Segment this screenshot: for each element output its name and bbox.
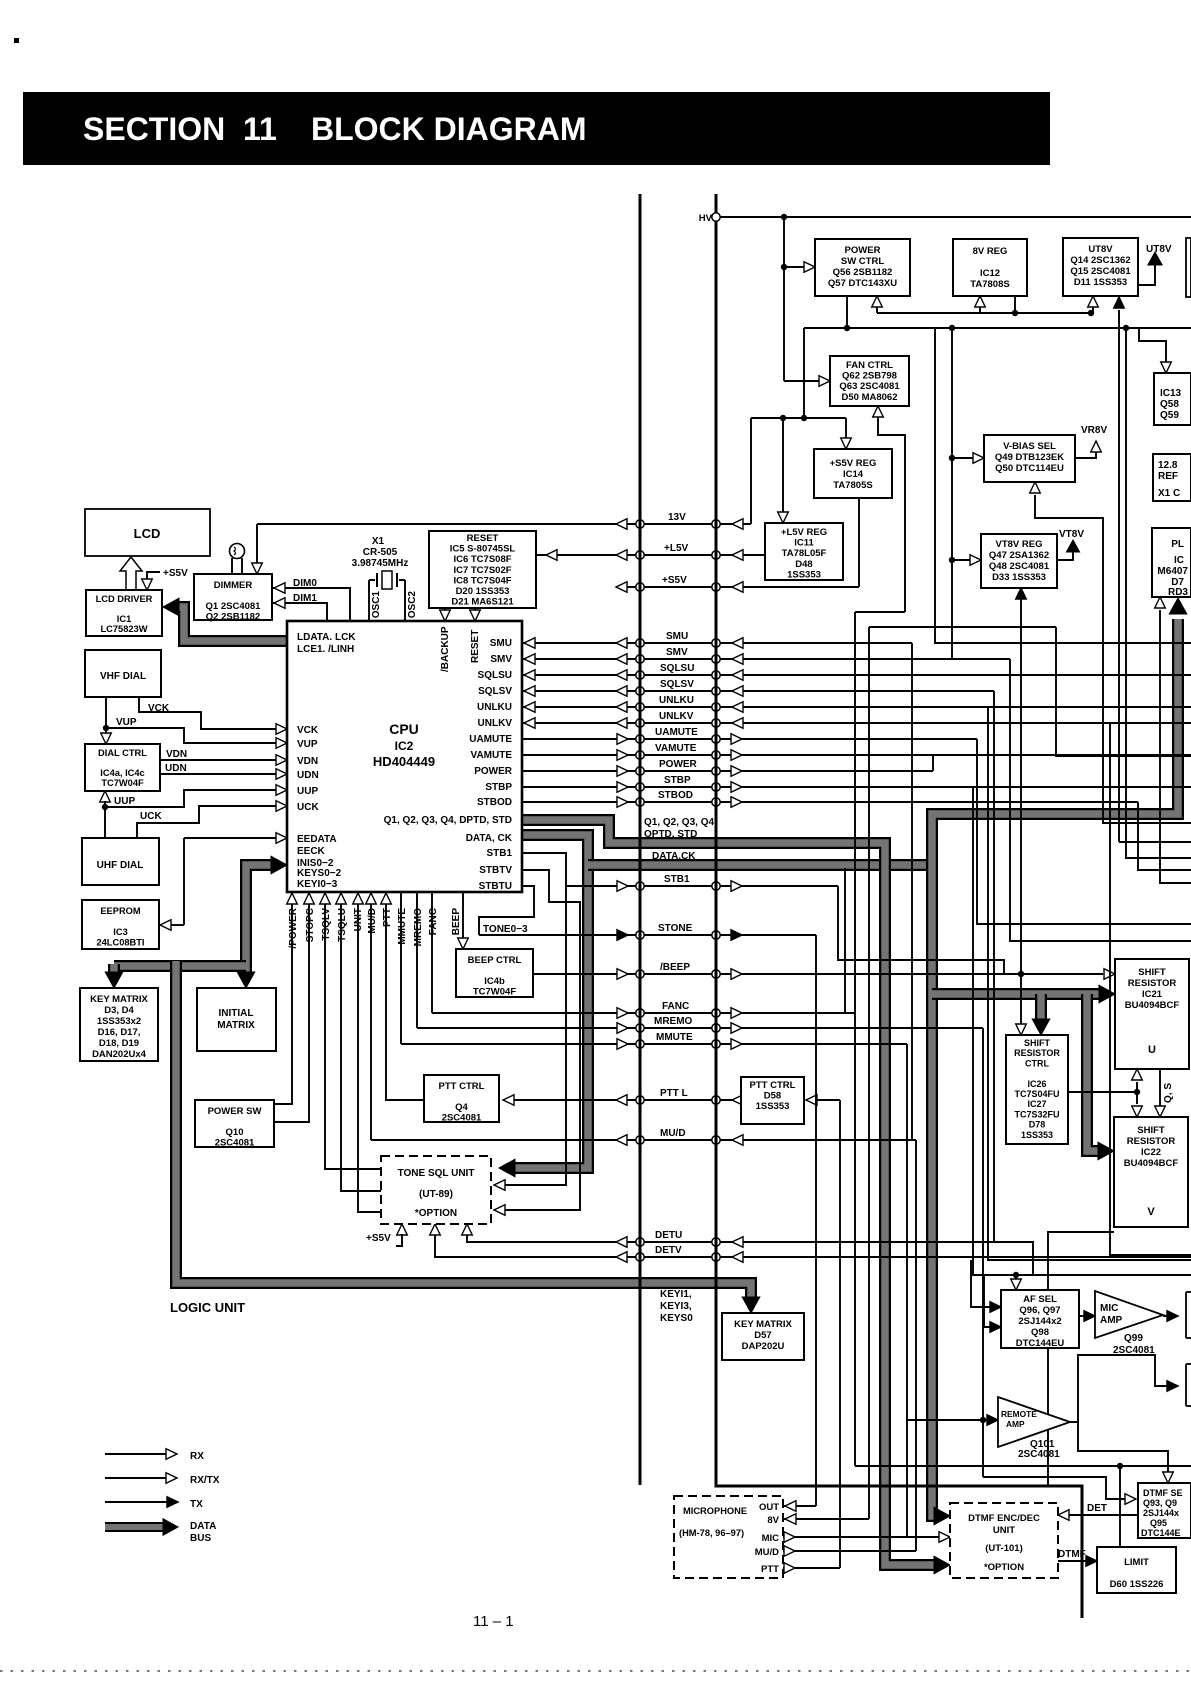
box DIMMER Q1 Q2 (194, 574, 272, 620)
wire TONE SQL UNIT pin to STB1 riser (505, 886, 566, 1185)
svg-text:SHIFT: SHIFT (1024, 1038, 1051, 1048)
svg-text:MMUTE: MMUTE (397, 908, 408, 945)
svg-text:RESET: RESET (470, 630, 481, 663)
wire DTMF SEL left input (983, 1477, 1127, 1499)
svg-text:Q58: Q58 (1160, 399, 1179, 410)
svg-text:TONE0−3: TONE0−3 (483, 924, 528, 935)
wire 8V drop to microphone (868, 627, 870, 1519)
svg-text:IC14: IC14 (843, 469, 864, 480)
svg-text:DIM0: DIM0 (293, 578, 317, 589)
svg-text:IC22: IC22 (1141, 1147, 1161, 1158)
legend RX (105, 1453, 168, 1455)
box RESET IC5-IC8 (429, 531, 536, 608)
svg-text:UHF DIAL: UHF DIAL (97, 860, 144, 871)
right edge box 2 (1185, 1364, 1187, 1406)
wire VHF DIAL to DIAL CTRL (105, 696, 107, 733)
svg-text:X1 C: X1 C (1158, 488, 1180, 499)
svg-text:SMV: SMV (490, 654, 512, 665)
wire STB1 from CPU pin (522, 853, 566, 886)
svg-text:MREMO: MREMO (654, 1016, 693, 1027)
box +L5V REG IC11 D48 (765, 523, 843, 580)
svg-text:UNLKV: UNLKV (478, 718, 513, 729)
svg-text:AMP: AMP (1100, 1315, 1123, 1326)
svg-text:IC27: IC27 (1027, 1099, 1046, 1109)
svg-text:HV: HV (699, 213, 713, 224)
wire microphone OUT (783, 1505, 816, 1507)
svg-text:SMU: SMU (666, 631, 688, 642)
svg-text:RESISTOR: RESISTOR (1128, 978, 1177, 989)
wire /POWER to POWER SW (274, 903, 292, 1104)
svg-text:TSQLV: TSQLV (321, 908, 332, 941)
svg-text:POWER SW: POWER SW (208, 1106, 262, 1117)
wire 13V riser and regulator feeds y=418 (751, 417, 846, 419)
wire x=855 drop to y=1466 (854, 612, 856, 1466)
svg-text:EECK: EECK (297, 846, 326, 857)
data bus: LCD DRIVER to CPU LDATA/LCK (174, 607, 287, 641)
svg-text:D50 MA8062: D50 MA8062 (842, 392, 898, 403)
wire DET line DTMF SEL to DTMF ENC/DEC (1068, 1514, 1138, 1516)
data bus: CPU DATA,CK down to TONE SQL UNIT (509, 835, 588, 1168)
svg-text:SMV: SMV (666, 647, 688, 658)
svg-text:TC7W04F: TC7W04F (101, 778, 144, 788)
box DTMF SEL Q93 Q94 Q95 (1138, 1483, 1191, 1538)
box LIMIT D60 (1097, 1547, 1176, 1593)
svg-text:IC5 S-80745SL: IC5 S-80745SL (450, 544, 516, 555)
box TONE SQL UNIT UT-89 dashed (381, 1156, 491, 1224)
wire PLL bottom thin feed to right edge y=896 (1160, 610, 1191, 883)
box EEPROM IC3 (82, 900, 159, 949)
svg-text:BEEP CTRL: BEEP CTRL (468, 955, 522, 966)
wire OSC2 (404, 580, 406, 621)
svg-text:IC8 TC7S04F: IC8 TC7S04F (453, 575, 511, 586)
svg-text:2SC4081: 2SC4081 (442, 1113, 482, 1124)
svg-text:TC7S32FU: TC7S32FU (1014, 1109, 1059, 1119)
svg-text:UT8V: UT8V (1146, 244, 1172, 255)
wire MMUTE (401, 1043, 907, 1045)
svg-text:UT8V: UT8V (1088, 244, 1113, 255)
wire 13V to DIMMER (256, 524, 258, 565)
data bus: CPU Q1-Q4,OPTD,STD to DTMF ENC/DEC (522, 820, 939, 1565)
svg-text:OSC1: OSC1 (371, 591, 382, 619)
svg-text:LIMIT: LIMIT (1124, 1557, 1149, 1568)
svg-text:BLOCK DIAGRAM: BLOCK DIAGRAM (311, 111, 587, 147)
svg-text:/POWER: /POWER (288, 907, 299, 948)
svg-text:DATA: DATA (190, 1521, 216, 1532)
wire 8V feed x=935 to right edge y=643 (935, 328, 1191, 643)
wire UCK (137, 806, 278, 838)
wire STOPC to POWER SW (274, 903, 309, 1122)
svg-text:RESISTOR: RESISTOR (1014, 1048, 1060, 1058)
svg-text:DIMMER: DIMMER (214, 580, 253, 591)
svg-text:24LC08BTI: 24LC08BTI (96, 938, 144, 948)
svg-text:Q1, Q2, Q3, Q4, DPTD, STD: Q1, Q2, Q3, Q4, DPTD, STD (384, 815, 512, 826)
box VHF DIAL (85, 650, 161, 697)
svg-text:STBP: STBP (485, 782, 512, 793)
svg-text:X1: X1 (372, 536, 385, 547)
svg-text:POWER: POWER (474, 766, 513, 777)
box PLL IC M64015 (1152, 528, 1191, 597)
svg-text:11: 11 (243, 111, 277, 147)
svg-text:AF SEL: AF SEL (1023, 1294, 1057, 1305)
svg-text:TC7S04FU: TC7S04FU (1014, 1089, 1059, 1099)
svg-text:UUP: UUP (114, 796, 135, 807)
box POWER SW CTRL Q56 Q57 (815, 239, 910, 296)
svg-text:VCK: VCK (148, 703, 170, 714)
dimmer lamp symbol (230, 544, 245, 559)
wire DETV (435, 1234, 1191, 1257)
wire MIC AMP output to right edge box (1163, 1315, 1169, 1317)
svg-text:(HM-78, 96–97): (HM-78, 96–97) (679, 1528, 744, 1538)
svg-text:11 – 1: 11 – 1 (473, 1613, 514, 1630)
wire AF SEL input 2 (984, 1275, 991, 1327)
box INITIAL MATRIX (197, 988, 276, 1051)
wire 8V to V-BIAS/VT8V vertical x=952 (951, 328, 953, 660)
wire STB1 (566, 885, 838, 887)
data bus branch to SHIFT RESISTOR IC22 (1087, 994, 1102, 1151)
wire AF SEL top feed (1015, 1275, 1017, 1280)
svg-text:UNLKV: UNLKV (659, 711, 694, 722)
svg-text:UNLKU: UNLKU (477, 702, 512, 713)
svg-text:RX/TX: RX/TX (190, 1475, 220, 1486)
legend TX (105, 1501, 170, 1503)
wire SMV drop to right edge y=941 (1010, 659, 1191, 941)
header bar: SECTION 11 BLOCK DIAGRAM (23, 92, 1050, 165)
svg-text:MIC: MIC (1100, 1303, 1118, 1314)
svg-text:MIC: MIC (762, 1533, 780, 1544)
svg-text:SQLSV: SQLSV (660, 679, 694, 690)
svg-text:Q63 2SC4081: Q63 2SC4081 (839, 381, 900, 392)
svg-text:AMP: AMP (1006, 1419, 1025, 1429)
LCD to LCD DRIVER big arrow (120, 557, 142, 590)
svg-text:D20 1SS353: D20 1SS353 (456, 586, 510, 597)
svg-text:STONE: STONE (658, 923, 693, 934)
svg-text:STBTU: STBTU (479, 881, 512, 892)
svg-text:VUP: VUP (116, 717, 137, 728)
wire VCK (139, 696, 278, 729)
wire DIM0 (272, 588, 350, 621)
wire +L5V (536, 554, 765, 556)
wire DTMF ENC/DEC to LIMIT (1058, 1560, 1086, 1562)
svg-text:(UT-101): (UT-101) (985, 1543, 1022, 1554)
wire microphone 8V (783, 1518, 869, 1520)
wire microphone MIC to DTMF ENC/DEC (783, 1536, 939, 1538)
svg-text:1SS353: 1SS353 (1021, 1130, 1053, 1140)
wire STBTU to TONE0-3 line (479, 886, 534, 935)
svg-text:IC4a, IC4c: IC4a, IC4c (100, 768, 144, 778)
svg-text:VT8V REG: VT8V REG (996, 539, 1043, 550)
svg-text:DAP202U: DAP202U (742, 1341, 785, 1352)
svg-text:KEYI1,: KEYI1, (660, 1289, 692, 1300)
wire VT8V REG bottom feed / shift ctrl feed x=1021 (1020, 599, 1022, 1024)
svg-text:12.8: 12.8 (1158, 460, 1178, 471)
svg-text:VDN: VDN (166, 749, 187, 760)
wire microphone MU/D (783, 1550, 916, 1552)
wire HV feed to POWER SW CTRL and FAN CTRL (783, 217, 785, 381)
svg-text:D18, D19: D18, D19 (99, 1038, 139, 1049)
wire +S5V (618, 586, 859, 588)
svg-text:13V: 13V (668, 512, 686, 523)
svg-text:DETU: DETU (655, 1230, 682, 1241)
svg-text:RD3: RD3 (1168, 587, 1188, 598)
svg-text:+L5V REG: +L5V REG (781, 527, 827, 538)
svg-text:KEYI0−3: KEYI0−3 (297, 879, 338, 890)
wire AF SEL input 1 (971, 1260, 991, 1307)
amp triangle MIC AMP Q99 (1095, 1291, 1163, 1338)
svg-text:HD404449: HD404449 (373, 754, 435, 769)
svg-text:RX: RX (190, 1451, 204, 1462)
wire MMUTE drop to MIC line (906, 1044, 908, 1537)
svg-text:+S5V: +S5V (662, 575, 687, 586)
svg-text:*OPTION: *OPTION (415, 1208, 457, 1219)
data bus branch to SHIFT RESISTOR CTRL (1035, 994, 1047, 1023)
svg-text:Q48 2SC4081: Q48 2SC4081 (989, 561, 1050, 572)
svg-text:MICROPHONE: MICROPHONE (683, 1506, 747, 1516)
wire UNLKV branch down to y=1255 (1110, 723, 1191, 1255)
svg-text:Q93, Q9: Q93, Q9 (1143, 1498, 1177, 1508)
svg-text:UUP: UUP (297, 786, 318, 797)
svg-text:3.98745MHz: 3.98745MHz (352, 558, 409, 569)
svg-text:IC7 TC7S02F: IC7 TC7S02F (453, 565, 511, 576)
svg-text:Q1, Q2, Q3, Q4,: Q1, Q2, Q3, Q4, (644, 817, 717, 828)
svg-text:REMOTE: REMOTE (1001, 1409, 1037, 1419)
wire VUP (106, 728, 278, 743)
svg-text:VCK: VCK (297, 725, 319, 736)
svg-text:D78: D78 (1029, 1120, 1046, 1130)
box VT8V REG Q47 Q48 D33 (981, 534, 1057, 588)
svg-text:OUT: OUT (759, 1502, 779, 1513)
wire TSQLV to TONE SQL UNIT (325, 903, 381, 1169)
svg-text:1SS353: 1SS353 (756, 1101, 790, 1112)
svg-text:(UT-89): (UT-89) (419, 1189, 453, 1200)
svg-text:KEY MATRIX: KEY MATRIX (734, 1319, 792, 1330)
svg-text:Q95: Q95 (1150, 1518, 1167, 1528)
wire PTT L (510, 1099, 741, 1101)
svg-text:STBOD: STBOD (477, 797, 512, 808)
svg-text:SQLSV: SQLSV (478, 686, 512, 697)
amp triangle REMOTE AMP Q101 (998, 1397, 1070, 1447)
box 12.8MHz REF X1 (1153, 454, 1191, 501)
svg-text:Q10: Q10 (226, 1127, 244, 1138)
svg-text:MATRIX: MATRIX (217, 1020, 255, 1031)
box PTT CTRL D58 1SS353 (741, 1077, 804, 1124)
wire VDN (160, 759, 278, 761)
svg-text:IC1: IC1 (117, 614, 131, 624)
right edge box 1 (1185, 1292, 1187, 1338)
wire DIM1 (272, 603, 327, 621)
svg-text:PTT L: PTT L (660, 1088, 688, 1099)
svg-text:DETV: DETV (655, 1245, 682, 1256)
svg-text:D3, D4: D3, D4 (104, 1005, 134, 1016)
svg-text:TC7W04F: TC7W04F (473, 987, 516, 998)
svg-text:SW CTRL: SW CTRL (841, 256, 884, 267)
svg-text:Q98: Q98 (1031, 1327, 1049, 1338)
svg-text:TA78L05F: TA78L05F (782, 548, 827, 559)
box LCD (85, 509, 210, 556)
wire VT8V REG output VT8V (1057, 552, 1073, 560)
svg-text:DATA,CK: DATA,CK (652, 851, 696, 862)
wire VAMUTE (522, 754, 1191, 756)
svg-text:8V: 8V (767, 1515, 779, 1526)
svg-text:BU4094BCF: BU4094BCF (1124, 1158, 1179, 1169)
svg-text:+S5V: +S5V (163, 568, 188, 579)
svg-text:TONE SQL UNIT: TONE SQL UNIT (398, 1168, 475, 1179)
svg-text:CTRL: CTRL (1025, 1058, 1049, 1068)
box POWER SW Q10 (195, 1100, 274, 1147)
svg-text:IC13: IC13 (1160, 388, 1182, 399)
svg-text:DIAL CTRL: DIAL CTRL (98, 748, 147, 758)
svg-text:STOPC: STOPC (305, 908, 316, 942)
data bus: CPU KEYS0-2/INIS0-2 to INITIAL MATRIX / KEY MATRIX (246, 865, 277, 976)
wire FANC pin down (431, 893, 433, 1013)
wire UNLKU branch down to y=1260 (988, 707, 1191, 1260)
data bus: PLL to shift registers and DTMF (932, 619, 1178, 1516)
data bus: DATA,CK horizontal branch (588, 859, 932, 871)
wire SQLSV drop to DETU line (993, 691, 995, 1242)
wire from 8V line to IC13 (1139, 328, 1166, 362)
wire y=1466 to LIMIT and right edge (855, 1465, 1191, 1467)
wire STBP (522, 786, 1191, 788)
box SHIFT RESISTOR IC22 BU4094BCF (1114, 1117, 1188, 1227)
svg-text:BUS: BUS (190, 1533, 211, 1544)
svg-text:UDN: UDN (165, 763, 187, 774)
bottom page edge dotted line (0, 1670, 1191, 1672)
svg-text:UAMUTE: UAMUTE (655, 727, 698, 738)
wire SMU (522, 642, 912, 644)
svg-text:2SJ144x2: 2SJ144x2 (1018, 1316, 1061, 1327)
svg-text:VHF DIAL: VHF DIAL (100, 671, 146, 682)
wire PTT riser x=840 to PTT CTRL D58 and microphone PTT (839, 1100, 841, 1568)
svg-text:BEEP: BEEP (451, 908, 462, 936)
wire SMU drop at x=912 (911, 643, 913, 1140)
svg-text:Q15 2SC4081: Q15 2SC4081 (1070, 266, 1131, 277)
svg-text:CPU: CPU (389, 721, 419, 737)
svg-text:D21 MA6S121: D21 MA6S121 (451, 597, 514, 608)
svg-text:VAMUTE: VAMUTE (655, 743, 697, 754)
svg-text:D11 1SS353: D11 1SS353 (1074, 277, 1127, 288)
svg-text:Q50 DTC114EU: Q50 DTC114EU (995, 463, 1064, 474)
wire MREMO pin down (416, 893, 418, 1028)
wire BEEP pin to BEEP CTRL (462, 893, 464, 940)
svg-text:SMU: SMU (490, 638, 512, 649)
svg-text:MU/D: MU/D (755, 1547, 779, 1558)
wire FANC (432, 1012, 855, 1014)
box PTT CTRL Q4 (424, 1075, 499, 1122)
svg-text:/BACKUP: /BACKUP (440, 626, 451, 672)
wire V-BIAS SEL output VR8V (1075, 452, 1096, 458)
svg-text:KEYS0: KEYS0 (660, 1313, 693, 1324)
wire STBTV to TONE SQL UNIT (505, 870, 580, 1210)
box FAN CTRL Q62 Q63 D50 (830, 356, 909, 406)
box SHIFT RESISTOR CTRL IC26 IC27 D78 (1006, 1035, 1068, 1144)
svg-text:LDATA. LCK: LDATA. LCK (297, 632, 356, 643)
wire microphone PTT (783, 1567, 840, 1569)
data bus branch to SHIFT RESISTOR IC21 (932, 988, 1103, 1000)
svg-text:POWER: POWER (659, 759, 698, 770)
svg-text:8V REG: 8V REG (973, 246, 1008, 257)
wire 8V REG output (1014, 296, 1016, 313)
wire MREMO (417, 1027, 983, 1029)
svg-text:MREMO: MREMO (413, 908, 424, 947)
svg-text:D57: D57 (754, 1330, 771, 1341)
box +S5V REG IC14 (814, 449, 892, 498)
svg-text:Q59: Q59 (1160, 410, 1179, 421)
svg-text:TA7805S: TA7805S (833, 480, 872, 491)
box UHF DIAL (82, 838, 159, 885)
wire OSC1 (368, 580, 370, 621)
svg-text:UDN: UDN (297, 770, 319, 781)
wire STONE (479, 934, 816, 936)
svg-text:MU/D: MU/D (367, 908, 378, 934)
wire right-edge line y=842 (1119, 841, 1191, 843)
svg-text:SECTION: SECTION (83, 111, 225, 147)
svg-text:VR8V: VR8V (1081, 425, 1107, 436)
wire REMOTE AMP output to right edge box 2 (1070, 1355, 1169, 1422)
wire SMV (522, 658, 1010, 660)
svg-text:UAMUTE: UAMUTE (469, 734, 512, 745)
HV line (716, 216, 1191, 218)
svg-text:STBOD: STBOD (658, 790, 693, 801)
svg-text:FANC: FANC (662, 1001, 689, 1012)
wire TSQLU to TONE SQL UNIT (341, 903, 381, 1191)
svg-text:1SS353: 1SS353 (787, 569, 821, 580)
svg-text:MU/D: MU/D (660, 1128, 686, 1139)
wire POWER SW CTRL bottom to 8V rail (846, 296, 848, 328)
wire UNLKU (522, 706, 1191, 708)
svg-text:EEDATA: EEDATA (297, 834, 337, 845)
box IC13 Q58 Q59 (1154, 373, 1191, 425)
svg-text:2SJ144x: 2SJ144x (1143, 1508, 1179, 1518)
svg-text:IC26: IC26 (1027, 1079, 1046, 1089)
svg-text:+S5V: +S5V (366, 1233, 391, 1244)
svg-text:DTC144E: DTC144E (1141, 1528, 1181, 1538)
wire FAN CTRL bottom feed chain (878, 417, 905, 612)
svg-text:PTT: PTT (382, 908, 393, 927)
box MICROPHONE HM-78 dashed (674, 1496, 783, 1578)
svg-text:DTMF SE: DTMF SE (1143, 1488, 1183, 1498)
svg-text:D33 1SS353: D33 1SS353 (992, 572, 1046, 583)
svg-text:IC4b: IC4b (484, 976, 505, 987)
svg-text:VUP: VUP (297, 739, 318, 750)
box CPU IC2 HD404449 (287, 621, 522, 892)
svg-text:LOGIC UNIT: LOGIC UNIT (170, 1300, 245, 1315)
wire into VT8V REG (952, 559, 972, 561)
svg-text:OPTD, STD: OPTD, STD (644, 829, 697, 840)
wire MU/D drop to microphone MU/D (915, 1140, 917, 1551)
svg-text:LCE1. /LINH: LCE1. /LINH (297, 644, 354, 655)
wire UT8V bottom filled feed (1118, 310, 1120, 842)
wire MREMO drop to REMOTE AMP and DTMF SEL (982, 1028, 984, 1477)
svg-text:KEYI3,: KEYI3, (660, 1301, 692, 1312)
svg-text:1SS353x2: 1SS353x2 (97, 1016, 141, 1027)
svg-text:POWER: POWER (845, 245, 881, 256)
wire UT8V output arrow right (1138, 264, 1155, 285)
svg-text:STB1: STB1 (486, 848, 512, 859)
wire x=1126 from 8V line to right edge y=865 (1126, 328, 1191, 858)
wire STB1 route via y=960 (838, 886, 1004, 974)
wire UNIT to TONE SQL UNIT (358, 903, 381, 1212)
wires between IC21 and IC22 (1136, 1082, 1138, 1104)
wire UNLKV (522, 722, 1191, 724)
box DIAL CTRL IC4a IC4c (85, 744, 160, 791)
wire PTT pin to PTT CTRL Q4 (386, 903, 423, 1100)
svg-text:VT8V: VT8V (1059, 529, 1084, 540)
svg-text:IC21: IC21 (1142, 989, 1163, 1000)
svg-text:Q2 2SB1182: Q2 2SB1182 (206, 612, 260, 623)
box SHIFT RESISTOR IC21 BU4094BCF (1115, 959, 1189, 1069)
svg-text:VDN: VDN (297, 756, 318, 767)
svg-text:STB1: STB1 (664, 874, 690, 885)
wire RESET outputs to CPU (444, 608, 446, 612)
